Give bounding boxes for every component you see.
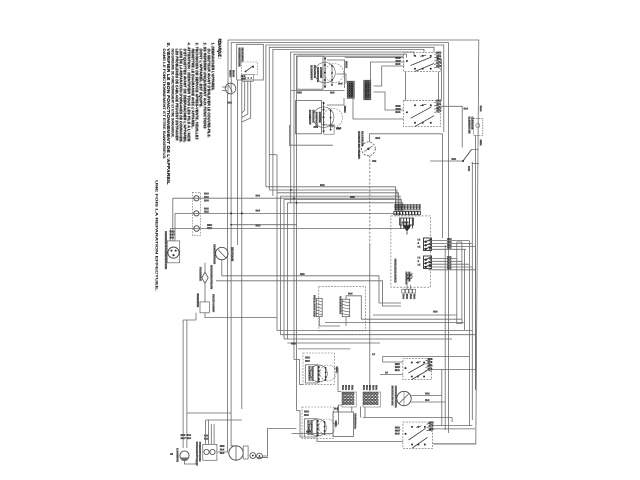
clock connector labels top (394, 204, 398, 212)
wire bake riser (475, 135, 477, 390)
svg-text:4B: 4B (170, 453, 173, 456)
svg-text:RELAIS DE: RELAIS DE (313, 295, 317, 317)
svg-text:UNE FOIS LA REPARATION EFFECTU: UNE FOIS LA REPARATION EFFECTUEE. (155, 180, 159, 291)
wire bus down 2 (230, 94, 232, 430)
svg-text:LAMPE: LAMPE (176, 448, 180, 462)
svg-text:BLK: BLK (314, 126, 319, 129)
wire lamp3 row (170, 228, 409, 230)
connector P7 (342, 392, 356, 407)
lock cluster labels col1 (181, 434, 185, 436)
svg-text:BLK: BLK (336, 128, 341, 131)
junction dots (230, 224, 232, 226)
wire hbundle B3 (325, 322, 465, 324)
wire plug risers (172, 198, 174, 241)
thermal switch text (195, 442, 198, 466)
oven lamp L2 label (176, 448, 180, 462)
wire branch to 277 riser (269, 154, 277, 156)
relay fanout wires K1 (429, 240, 470, 242)
oven sensor label (357, 131, 361, 159)
infinite switch S4 dashed box (403, 359, 432, 380)
svg-text:DISJONCTEUR: DISJONCTEUR (210, 265, 214, 289)
junction labels WHT BLK (228, 70, 232, 77)
power cord label CORDON D'ALIMENTATION (164, 231, 168, 269)
infinite switch S5 dashed box (403, 422, 433, 448)
svg-text:RED: RED (335, 367, 338, 373)
connector P8 (363, 392, 380, 407)
svg-text:BLK: BLK (425, 400, 430, 402)
clock left text HORLOGE (393, 259, 397, 283)
svg-text:BK: BK (368, 385, 370, 390)
wire S4 right label row (432, 369, 477, 371)
infinite switch S5 contacts (409, 428, 426, 440)
oven lamp L2 (180, 451, 189, 460)
bake wire label right mid (479, 140, 482, 146)
svg-text:VIO: VIO (372, 160, 376, 163)
wire vdrop 287 (286, 203, 288, 339)
wire junction to left lamps (222, 86, 227, 88)
infinite switch S3 contacts (411, 107, 432, 119)
wire fuse top (204, 263, 206, 272)
element E4 right front dashed box (303, 353, 334, 384)
wire top nested 6 (291, 52, 414, 203)
wire sensor top (370, 134, 443, 142)
thermal switch box (203, 444, 217, 460)
wire P3 to switch S3 b (353, 98, 404, 120)
svg-text:AVERTISSEUR: AVERTISSEUR (405, 272, 408, 285)
wire broil left (292, 433, 334, 435)
svg-text:HORLOGE (ERC): HORLOGE (ERC) (393, 259, 397, 283)
note line 6 (191, 49, 195, 129)
element E5 right rear text (307, 420, 311, 435)
infinite switch S4 left labels (395, 363, 400, 365)
svg-text:BK: BK (405, 294, 407, 299)
relay K4 top wire (346, 296, 361, 319)
svg-text:SONORE: SONORE (407, 272, 410, 282)
wire right loop rect (457, 242, 462, 324)
fan motor label (213, 244, 217, 264)
wire label RED c (256, 225, 260, 227)
oven lamp DL1 (194, 196, 199, 201)
wire element top to S2 (345, 57, 404, 59)
wire label L1 h (372, 353, 375, 355)
svg-text:DU FOUR: DU FOUR (360, 131, 364, 146)
wire right bundle bottom 1 (441, 369, 443, 426)
svg-text:TERMINAL: TERMINAL (353, 413, 356, 430)
svg-text:THERMIQUE: THERMIQUE (198, 442, 201, 462)
svg-text:TEMOIN: TEMOIN (196, 293, 200, 307)
svg-text:BK: BK (341, 385, 343, 390)
oven lamps dashed box (192, 192, 200, 235)
small marks far left (170, 453, 173, 455)
wire clock feed 1 (266, 187, 396, 212)
broil element box bottom (333, 412, 354, 437)
element group frame (289, 125, 333, 145)
wire label RED d (297, 92, 301, 94)
connector P4 surface right (364, 80, 371, 99)
infinite switch S4 terminals (411, 361, 413, 363)
wire vdrop 280 (280, 196, 282, 335)
element E4 right front labels top (305, 357, 309, 359)
infinite switch S5 right labels (429, 422, 433, 424)
infinite switch S3 dashed box (404, 101, 441, 127)
wire S4 feed left (383, 356, 403, 362)
infinite switch S2 terminals (414, 55, 416, 57)
note line 11 (170, 49, 174, 138)
fuse label (210, 265, 214, 289)
infinite switch S4 right labels (428, 358, 432, 360)
element E4 right front text (308, 366, 312, 381)
svg-text:RED: RED (447, 239, 452, 241)
wire fan row 1 (222, 276, 401, 303)
svg-text:BK: BK (365, 385, 367, 390)
svg-text:RED: RED (297, 92, 302, 95)
wire switch right drops (448, 43, 450, 434)
element E5 right rear circles (309, 419, 326, 436)
infinite switch S3 left labels (396, 105, 401, 107)
svg-text:RED: RED (291, 343, 296, 346)
bake element feed line (441, 106, 462, 147)
junction node A circle (225, 83, 236, 94)
wire label BLK a (256, 195, 260, 197)
element E5 right rear terminal columns (317, 420, 319, 436)
svg-text:N: N (418, 260, 420, 263)
svg-text:BK: BK (402, 294, 404, 299)
wire top nested 5 (273, 49, 424, 196)
svg-text:2400W: 2400W (319, 67, 323, 78)
element E4 right front inner rect (305, 365, 318, 383)
lock motor box (243, 446, 248, 459)
note line 8 (183, 49, 187, 144)
svg-text:RED: RED (256, 225, 261, 228)
svg-text:RED: RED (425, 394, 430, 396)
svg-text:BLK: BLK (452, 158, 457, 161)
svg-text:RED: RED (447, 242, 452, 244)
note line 9 (179, 49, 183, 143)
wire sensor bottom long (369, 156, 371, 243)
element group top edge (298, 348, 350, 350)
svg-text:LES PROBLEMES DE CABLAGE PEUVE: LES PROBLEMES DE CABLAGE PEUVENT ENTRAIN… (175, 49, 179, 141)
infinite switch S4 right hooks (426, 360, 432, 361)
svg-text:BLK: BLK (447, 260, 452, 262)
fan motor M1 circle (216, 247, 228, 259)
wire lock out (262, 428, 296, 456)
wire fuse to relay box (204, 283, 206, 302)
lock cam circles (250, 453, 256, 459)
wires grids down (337, 407, 339, 413)
svg-text:BLK: BLK (464, 108, 469, 111)
wire hbundle B1 (373, 314, 457, 316)
wire between switch boxes (438, 72, 440, 101)
element E4 right front label right (335, 367, 338, 373)
element E5 right rear inner rect (304, 419, 317, 437)
wire top nested 3 (266, 45, 444, 187)
svg-text:BLK: BLK (447, 263, 452, 265)
clock dashed box (391, 216, 431, 287)
relay K3 label (313, 295, 317, 317)
svg-text:BK: BK (344, 385, 346, 390)
door switch label INTERRUPTEUR DE PORTE (237, 48, 241, 68)
convection motor label (391, 386, 395, 406)
surface element E2 left rear text (308, 110, 312, 125)
svg-text:BLK: BLK (304, 414, 309, 417)
wire lamp drop (185, 460, 197, 464)
sensor wire label (372, 160, 376, 162)
wire label bus BLK (228, 102, 232, 104)
infinite switch S2 dashed box (404, 52, 441, 71)
svg-text:BLK: BLK (395, 368, 400, 372)
infinite switch S5 right hooks (427, 424, 433, 425)
svg-text:BK: BK (374, 385, 376, 390)
wire elem2 bottom to S5 (317, 438, 403, 442)
wire door bus down 4 (241, 80, 243, 409)
wire branch row 224 (231, 224, 297, 226)
wire clock feed 5 (284, 199, 401, 211)
wire risers to lock cluster (182, 320, 184, 448)
svg-text:BLK: BLK (320, 184, 325, 187)
wire top nested 4 (269, 47, 434, 190)
wire clock feed 6 (287, 203, 402, 212)
wire right bundle 1 (468, 241, 470, 426)
bake feed horizontal (430, 160, 463, 162)
infinite switch S5 left labels (395, 427, 400, 429)
infinite switch S3 right labels (437, 100, 441, 102)
wire top nested 7 (294, 54, 407, 359)
svg-text:RED: RED (447, 248, 452, 250)
surface element E1 left front labels (345, 61, 348, 68)
infinite switch S4 contacts (408, 364, 424, 373)
lock motor M3 (229, 446, 243, 460)
pilot switch box (200, 302, 209, 313)
element wire labels (330, 92, 334, 94)
relay coil K4 (342, 299, 350, 317)
wire P3 top to elements (337, 74, 347, 84)
infinite switch S3 terminals (414, 104, 416, 106)
wire right bundle bottom 2 (444, 245, 446, 430)
wire pilot out (205, 313, 277, 318)
wire vdrop 284 (283, 199, 285, 339)
note line 10 (175, 49, 179, 141)
bake element diagonal (463, 149, 472, 161)
relay contact labels K1 (418, 239, 421, 241)
infinite switch S2 contacts (411, 57, 432, 65)
surface element E2 left rear coil circles (313, 107, 334, 128)
wire bus down 1 (227, 94, 229, 445)
relay K4 label (339, 296, 343, 314)
svg-text:BLK: BLK (187, 437, 192, 440)
wire bus into cluster (217, 444, 228, 452)
clock buzzer (407, 274, 412, 279)
lock circle base line (257, 457, 268, 459)
wire top bus N (231, 43, 448, 95)
element E5 right rear labels top (304, 411, 308, 413)
wire S4 top right corner (383, 355, 470, 357)
fuse F1 diamond (202, 272, 208, 283)
wire label RED k (350, 196, 354, 198)
pilot label left (196, 293, 200, 307)
wire label BLK b (256, 210, 260, 212)
svg-text:DANS LE FONCTIONNEMENT ET ETRE: DANS LE FONCTIONNEMENT ET ETRE BANGEREUX (162, 49, 166, 160)
svg-text:BLK: BLK (433, 311, 438, 314)
wire fan drop (221, 260, 223, 276)
svg-text:REMARQUE :: REMARQUE : (217, 39, 222, 59)
wire S5 bottom right (433, 443, 476, 445)
infinite switch S3 right hooks (434, 102, 440, 103)
clock bottom labels (402, 294, 405, 299)
wire S5 right horizontals (433, 425, 473, 427)
wire element2 right (333, 405, 341, 424)
oven lamp DL3 (194, 226, 200, 232)
svg-text:BLU: BLU (204, 199, 209, 202)
svg-text:BLK: BLK (395, 432, 400, 436)
plug wire labels (170, 231, 174, 233)
relay contact labels K2 (418, 257, 421, 259)
bake element label (467, 117, 471, 134)
wire under pair1 (291, 90, 345, 92)
element E4 right front circles (310, 365, 327, 382)
wire conv motor right top (411, 395, 442, 397)
svg-text:BLK: BLK (479, 106, 481, 112)
wire hbundle B2 (361, 318, 462, 320)
svg-text:BK: BK (350, 385, 352, 390)
wire label RED g (291, 343, 295, 345)
svg-text:BLK: BLK (232, 70, 236, 77)
wire label BLK f (433, 311, 437, 313)
svg-text:BLK: BLK (227, 102, 232, 105)
svg-text:DE PORTE: DE PORTE (240, 48, 244, 62)
svg-text:DE FOUR: DE FOUR (231, 247, 235, 261)
svg-text:XFMR: XFMR (402, 221, 409, 225)
wire P4 to switch S2 b (374, 66, 405, 86)
svg-text:BK: BK (347, 385, 349, 390)
note line 3 (203, 43, 207, 130)
thermal switch top labels (204, 435, 208, 437)
door switch contact (246, 66, 254, 72)
wire fan row 2 (216, 281, 401, 306)
svg-text:BLK: BLK (256, 210, 261, 213)
wire lamp2 row (175, 212, 401, 214)
wire conv motor right bottom (411, 401, 445, 403)
relay coil bottom wires (319, 317, 340, 326)
clock inner transformer cluster (400, 218, 414, 225)
wire cluster risers mid (205, 420, 207, 444)
svg-text:BLK: BLK (300, 273, 305, 276)
infinite switch S2 right hooks (434, 54, 440, 55)
note line 7 (187, 43, 191, 143)
svg-text:VENTILATEUR: VENTILATEUR (213, 244, 217, 264)
wire clock feed 4 (281, 196, 401, 211)
surface element E1 left front text (310, 65, 314, 80)
svg-text:BLK: BLK (306, 431, 311, 434)
infinite switch S2 right labels (437, 52, 441, 54)
surface element E2 left rear box (296, 101, 322, 134)
wire vdrop 277 (276, 155, 278, 331)
svg-text:BK: BK (412, 294, 414, 299)
wire lamp1 row (173, 198, 396, 205)
surface element E1 left front box (297, 56, 323, 89)
note line 5 (195, 43, 199, 141)
svg-text:BLK: BLK (348, 293, 353, 296)
element E5 right rear dashed box (302, 407, 333, 438)
wire label P2 (467, 166, 470, 172)
wire top nested 8 (297, 56, 404, 411)
clock bottom strip P6 (402, 289, 405, 293)
note line 1 (211, 43, 215, 92)
svg-text:VERROU: VERROU (339, 296, 343, 314)
wire right bundle 4 (464, 249, 466, 330)
door switch connector (243, 75, 254, 82)
wire clock feed 3 (277, 193, 399, 212)
surface element E2 left rear labels (343, 106, 346, 113)
svg-text:RED: RED (447, 245, 452, 247)
wire door connector drops (242, 81, 245, 113)
wire elements left riser (294, 360, 303, 385)
svg-text:BLK: BLK (338, 83, 343, 86)
svg-text:BLK: BLK (447, 257, 452, 259)
connector labels P7 P8 (341, 385, 344, 390)
svg-text:INTERRUPTEUR: INTERRUPTEUR (195, 442, 198, 466)
svg-text:BLK: BLK (256, 195, 261, 198)
svg-text:2400W: 2400W (318, 112, 322, 123)
relay fanout wires K2 (429, 257, 457, 259)
wire label BLK e (336, 128, 340, 130)
svg-text:BLK: BLK (170, 237, 175, 240)
wire right bundle 2 (471, 162, 473, 420)
door switch outer box (237, 44, 264, 80)
note line 12 (166, 43, 170, 186)
oven lamp DL2 (194, 211, 199, 216)
door switch wire labels (241, 75, 245, 77)
convection motor M2 circle (397, 391, 411, 405)
wire clock feed 2 (269, 190, 397, 211)
power cord plug P0 (168, 247, 179, 258)
wire mid 417 (363, 417, 452, 419)
wire right bundle 3 (475, 247, 477, 390)
surface element E1 left front coil circles (315, 62, 336, 83)
note line 2 (207, 49, 211, 138)
svg-text:BLK: BLK (305, 360, 310, 363)
infinite switch S5 terminals (411, 426, 413, 428)
svg-text:BLK: BLK (447, 265, 452, 267)
svg-text:CORDON D'ALIMENTATION: CORDON D'ALIMENTATION (164, 231, 168, 269)
note line 13 (162, 49, 166, 160)
relay coil K3 (316, 298, 322, 316)
svg-text:BK: BK (371, 385, 373, 390)
relay box dashed (319, 287, 366, 331)
pilot label right (212, 294, 216, 312)
infinite switch S2 left labels (396, 57, 401, 59)
svg-text:BK: BK (362, 385, 364, 390)
element E4 right front terminal columns (318, 366, 320, 382)
element interconnect wires (327, 60, 345, 88)
wire hbundle B4 (277, 330, 472, 332)
wire P4 to switch S2 (371, 62, 405, 80)
wire P4 to switch S3 (374, 92, 404, 110)
svg-text:SURFACE: SURFACE (311, 366, 315, 381)
svg-text:N: N (418, 242, 420, 245)
element aux box (324, 125, 334, 134)
note text REMARQUE heading (217, 39, 222, 59)
connector P3 surface left (347, 81, 354, 98)
power cord box (167, 241, 180, 263)
door switch S1 dashed box (241, 62, 257, 75)
oven lamp labels (204, 193, 208, 195)
wire top bus L1 outer (228, 40, 479, 444)
svg-text:BLK: BLK (330, 92, 335, 95)
lock labels RED BLK (220, 445, 224, 447)
svg-text:BLK: BLK (447, 268, 452, 270)
wire mid vertical 442 (442, 134, 444, 238)
wire door bus down 3 (237, 80, 239, 245)
